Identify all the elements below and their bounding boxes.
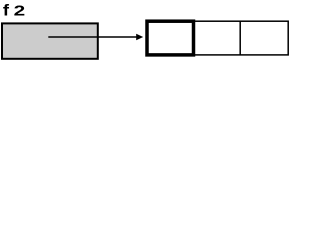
svg-text:f: f	[3, 2, 9, 19]
background	[0, 0, 291, 62]
array cell row outline	[147, 21, 288, 55]
array cell 0 (thick border)	[147, 21, 194, 55]
pointer wire	[48, 36, 137, 38]
array cell divider 2/3	[239, 21, 241, 55]
svg-text:2: 2	[14, 2, 26, 19]
arrowhead	[136, 34, 143, 41]
variable box f2	[2, 23, 98, 58]
